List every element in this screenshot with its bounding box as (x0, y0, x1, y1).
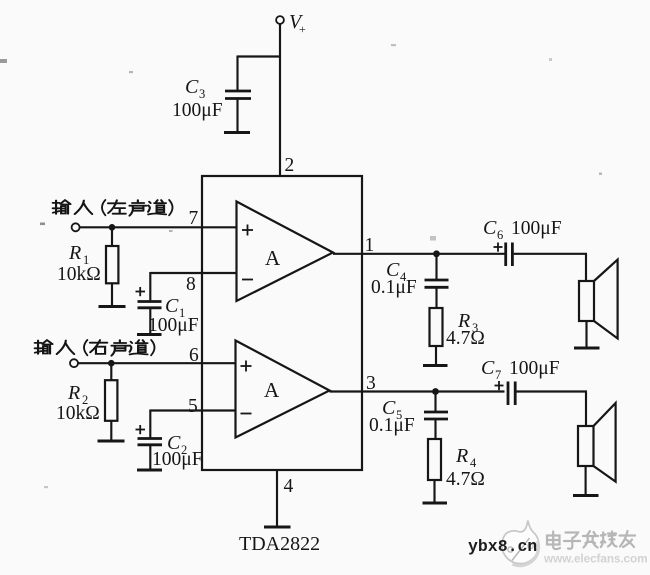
svg-text:4: 4 (284, 476, 294, 497)
ground bar of R3 (423, 364, 448, 367)
ground bar of R4 (423, 502, 448, 505)
svg-text:R: R (455, 445, 468, 467)
svg-text:www.elecfans.com: www.elecfans.com (543, 552, 648, 566)
svg-text:A: A (264, 378, 280, 402)
op-amp A2 (236, 341, 330, 438)
label input right channel (35, 340, 155, 356)
node junction output 3 (432, 388, 439, 395)
capacitor C2 (136, 425, 203, 470)
svg-text:0.1μF: 0.1μF (369, 415, 415, 436)
svg-text:C: C (483, 217, 497, 239)
op-amp A1 (237, 202, 334, 302)
capacitor C6 (483, 217, 562, 266)
svg-text:7: 7 (189, 208, 199, 229)
wire C7 to speaker 2 (517, 392, 588, 427)
svg-text:TDA2822: TDA2822 (239, 533, 320, 555)
svg-text:C: C (165, 295, 179, 317)
node junction right input (108, 360, 115, 367)
svg-text:100μF: 100μF (148, 315, 199, 336)
svg-text:7: 7 (495, 368, 501, 382)
ground bar of C2 (137, 469, 162, 472)
node junction output 1 (433, 250, 440, 257)
svg-text:8: 8 (186, 274, 196, 295)
ground bar of R2 (98, 440, 125, 443)
svg-text:10kΩ: 10kΩ (57, 264, 101, 285)
input terminal right (70, 359, 78, 367)
scan speck marks (0, 44, 602, 488)
svg-text:100μF: 100μF (152, 449, 203, 470)
wire input left to pin 7 (80, 226, 237, 228)
svg-text:A: A (265, 246, 281, 270)
capacitor C4 (371, 254, 449, 308)
capacitor C5 (369, 392, 448, 440)
wire V+ to pin 2 (279, 24, 281, 176)
resistor R2 (56, 363, 117, 440)
resistor R3 (430, 308, 485, 365)
svg-text:100μF: 100μF (172, 100, 223, 121)
wire pin 4 to ground (276, 470, 278, 526)
svg-text:100μF: 100μF (511, 218, 562, 239)
svg-text:0.1μF: 0.1μF (371, 277, 417, 298)
svg-text:100μF: 100μF (509, 358, 560, 379)
svg-text:6: 6 (497, 228, 503, 242)
IC box TDA2822 (202, 176, 362, 470)
speaker 2 (578, 403, 616, 495)
ground bar speaker 1 (574, 347, 600, 350)
watermark logo circle (502, 521, 539, 566)
wire C1 to pin 8 (150, 272, 236, 302)
ground bar pin 4 (264, 526, 291, 529)
wire C2 to pin 5 (150, 410, 235, 439)
ground bar of C1 (137, 333, 162, 336)
svg-text:4.7Ω: 4.7Ω (446, 469, 485, 490)
speaker 1 (579, 260, 618, 347)
svg-text:C: C (185, 76, 199, 98)
wire output 1 (333, 253, 505, 255)
resistor R4 (428, 439, 485, 502)
capacitor C3 (172, 76, 251, 132)
input terminal left (72, 223, 80, 231)
ground bar of C3 (224, 131, 250, 134)
svg-text:4.7Ω: 4.7Ω (446, 328, 485, 349)
wire output 3 (330, 390, 505, 392)
svg-text:R: R (67, 382, 80, 404)
label input left channel (53, 200, 173, 216)
ground bar speaker 2 (573, 494, 599, 497)
resistor R1 (57, 227, 118, 305)
svg-text:+: + (299, 22, 306, 36)
svg-text:3: 3 (199, 87, 205, 101)
svg-text:ybx8.cn: ybx8.cn (468, 537, 537, 556)
svg-text:4: 4 (470, 456, 477, 470)
svg-text:2: 2 (285, 155, 295, 176)
wire input right to pin 6 (78, 362, 236, 364)
svg-text:C: C (481, 357, 495, 379)
capacitor C7 (481, 357, 560, 405)
svg-text:5: 5 (188, 396, 198, 417)
wire C3 branch (238, 56, 282, 91)
ground bar of R1 (99, 305, 126, 308)
wire C6 to speaker 1 (514, 254, 587, 281)
node V+ terminal (276, 11, 306, 36)
svg-text:10kΩ: 10kΩ (56, 403, 100, 424)
watermark text elecfans (547, 531, 635, 549)
node junction left input (109, 224, 116, 231)
svg-text:R: R (68, 242, 81, 264)
capacitor C1 (136, 287, 199, 336)
